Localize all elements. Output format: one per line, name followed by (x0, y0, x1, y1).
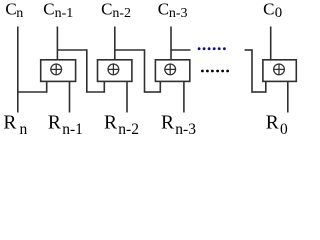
svg-text:n-2: n-2 (118, 121, 139, 138)
svg-text:R: R (48, 113, 61, 134)
wire Cn-3 branch stub (171, 49, 191, 51)
svg-text:n: n (16, 6, 23, 21)
xor box U1 (41, 60, 76, 82)
wire Cn-1 branch horizontal (57, 49, 86, 51)
svg-text:C: C (5, 0, 16, 18)
svg-text:R: R (161, 113, 174, 134)
wire riser into xor3 bottom (159, 81, 161, 93)
label Rn-2 (104, 113, 139, 138)
svg-text:R: R (104, 113, 117, 134)
xor box U4 (263, 60, 296, 82)
xor symbol U4 (274, 64, 285, 75)
label Cn (5, 0, 23, 21)
wire Cn vertical to Rn (17, 27, 19, 113)
wire elbow1 horizontal (87, 91, 105, 93)
svg-text:n-3: n-3 (169, 6, 188, 21)
xor box U2 (98, 60, 132, 82)
wire Cn-2 vertical into xor2 top (114, 27, 116, 61)
svg-text:R: R (266, 113, 279, 134)
svg-text:n-3: n-3 (175, 121, 196, 138)
wire elbow1 vertical (86, 49, 88, 93)
wire xor4 output to R0 (287, 81, 289, 113)
wire C0 vertical into xor4 top (270, 27, 272, 61)
svg-text:n-2: n-2 (112, 6, 131, 21)
svg-text:0: 0 (275, 5, 282, 21)
svg-text:C: C (158, 0, 169, 18)
wire riser into xor4 bottom (265, 81, 267, 93)
svg-text:C: C (263, 0, 274, 18)
label Rn (3, 113, 27, 138)
svg-text:C: C (101, 0, 112, 18)
wire elbow2 vertical (144, 49, 146, 93)
wire right elbow lower horizontal (252, 91, 266, 93)
wire Cn tap horizontal (17, 91, 47, 93)
wire Cn-3 vertical into xor3 top (170, 27, 172, 61)
svg-text:R: R (3, 113, 16, 134)
wire elbow2 horizontal (145, 91, 161, 93)
svg-text:C: C (43, 0, 54, 18)
wire Cn-1 vertical into xor1 top (56, 27, 58, 61)
label Cn-1 (43, 0, 73, 21)
ellipsis blue upper dots (198, 47, 226, 50)
svg-text:n-1: n-1 (55, 6, 74, 21)
wire xor3 output to Rn-3 (183, 81, 185, 113)
label Cn-2 (101, 0, 131, 21)
label Cn-3 (158, 0, 188, 21)
wire riser into xor1 bottom (46, 81, 48, 93)
label Rn-3 (161, 113, 196, 138)
wire right elbow vertical (251, 49, 253, 93)
label Rn-1 (48, 113, 83, 138)
xor symbol U1 (51, 64, 62, 75)
svg-text:n: n (20, 121, 28, 138)
wire right elbow horizontal stub (245, 49, 252, 51)
xor box U3 (155, 60, 189, 82)
label C0 (263, 0, 282, 21)
ellipsis black middle dots (201, 70, 229, 73)
label R0 (266, 113, 288, 138)
xor symbol U3 (165, 64, 176, 75)
svg-text:0: 0 (280, 121, 288, 138)
xor symbol U2 (108, 64, 119, 75)
wire riser into xor2 bottom (103, 81, 105, 93)
wire Cn-2 branch horizontal (115, 49, 145, 51)
svg-text:n-1: n-1 (62, 121, 83, 138)
wire xor2 output to Rn-2 (126, 81, 128, 113)
wire xor1 output to Rn-1 (69, 81, 71, 113)
